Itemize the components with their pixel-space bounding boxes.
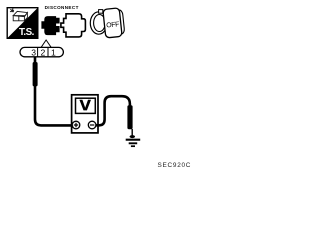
disconnect icon female half (outlined) xyxy=(61,14,86,37)
plus terminal xyxy=(72,121,80,129)
connector index triangle xyxy=(41,40,51,47)
svg-text:2: 2 xyxy=(41,47,46,57)
minus terminal xyxy=(88,121,96,129)
tool symbol T.S. badge xyxy=(7,8,38,39)
svg-text:1: 1 xyxy=(51,47,56,57)
svg-text:3: 3 xyxy=(31,47,36,57)
svg-text:SEC920C: SEC920C xyxy=(158,162,192,169)
disconnect icon male half (black) xyxy=(41,16,59,35)
probe tip xyxy=(131,129,133,136)
wire from voltmeter minus to ground probe xyxy=(96,96,130,125)
ground xyxy=(126,140,141,147)
tester connector sketch inside T.S. badge xyxy=(10,8,27,20)
svg-text:T.S.: T.S. xyxy=(19,27,35,38)
connector pinout 3|2|1 xyxy=(20,47,63,57)
voltmeter U1 xyxy=(72,95,98,133)
svg-text:DISCONNECT: DISCONNECT xyxy=(45,5,79,10)
svg-text:OFF: OFF xyxy=(106,21,120,29)
wire from pin 3 to voltmeter plus xyxy=(35,57,72,125)
test probe on right wire xyxy=(127,105,132,129)
ignition key OFF icon xyxy=(90,8,125,38)
test probe on left wire xyxy=(33,62,38,86)
